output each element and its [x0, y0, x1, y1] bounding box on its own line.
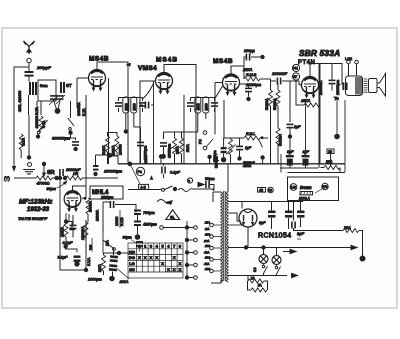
- tube MHL4: [64, 191, 81, 213]
- band switch contacts left: [37, 101, 48, 131]
- 1uF cap mid: [236, 146, 243, 151]
- svg-text:200µµF: 200µµF: [36, 65, 51, 70]
- svg-text:500ΚΛ: 500ΚΛ: [102, 145, 106, 155]
- cap on tube2 cathode left: [145, 102, 150, 109]
- svg-text:4000: 4000: [196, 103, 200, 110]
- junction dot: [27, 155, 31, 159]
- switch under osc: [103, 232, 113, 253]
- 8uF script cap lower: [291, 222, 296, 229]
- svg-text:2/Λ: 2/Λ: [204, 227, 210, 231]
- grid stopper cluster under tube3: [221, 147, 227, 153]
- dot under padder: [73, 147, 77, 151]
- svg-text:7Λ: 7Λ: [258, 284, 263, 288]
- field resistor hatched: [300, 192, 313, 195]
- tube3 grid wire: [215, 83, 223, 135]
- MHL4 label box: [90, 186, 123, 199]
- IFT1 bottom leads: [126, 113, 134, 131]
- svg-text:50µm: 50µm: [205, 177, 215, 181]
- svg-text:R.V.B: R.V.B: [120, 217, 124, 226]
- svg-text:130: 130: [205, 233, 210, 237]
- earth arrow: [12, 166, 16, 172]
- wire from box down: [293, 201, 295, 221]
- cap under IFT1: [137, 142, 144, 147]
- svg-text:PH: PH: [293, 67, 298, 71]
- svg-text:60µm: 60µm: [123, 236, 132, 240]
- svg-text:S.V.A: S.V.A: [87, 257, 91, 266]
- svg-text:6.3: 6.3: [253, 267, 257, 272]
- coil box 5cm: [38, 80, 56, 101]
- svg-text:0.1µF: 0.1µF: [170, 171, 180, 175]
- capacitor antenna series: [25, 71, 34, 77]
- svg-text:5000µm: 5000µm: [215, 156, 219, 168]
- resistor 100000 R.TA vertical: [39, 116, 43, 132]
- svg-text:300000µm: 300000µm: [52, 137, 70, 141]
- resistor 50000 vertical c: [276, 128, 280, 144]
- lamp switches: [264, 264, 281, 275]
- wire to earth arrow left: [14, 67, 29, 170]
- svg-text:TAUTE 500/2PF: TAUTE 500/2PF: [18, 216, 48, 221]
- 270 circle: [322, 183, 328, 189]
- 45 box: [258, 188, 266, 193]
- svg-text:MS4B: MS4B: [213, 58, 233, 65]
- wire antenna to cap: [28, 63, 30, 71]
- svg-text:100000µm: 100000µm: [104, 170, 122, 174]
- svg-text:0.1µF: 0.1µF: [58, 256, 68, 260]
- line to 4-5 box: [130, 164, 140, 184]
- svg-text:MS4B: MS4B: [156, 57, 178, 64]
- svg-text:1000: 1000: [132, 103, 136, 110]
- svg-text:DG: DG: [129, 255, 135, 260]
- svg-text:30: 30: [328, 150, 332, 154]
- svg-text:LG: LG: [129, 261, 135, 266]
- 4-5 box: [139, 184, 149, 189]
- svg-text:140: 140: [291, 186, 297, 190]
- svg-text:X: X: [167, 267, 170, 272]
- cap under tube3 anode: [240, 83, 249, 85]
- tube MS4B no.2: [156, 73, 173, 95]
- main ground bus left: [14, 177, 36, 179]
- switch on lower wire: [128, 189, 161, 191]
- svg-text:X: X: [150, 255, 153, 260]
- svg-text:200µµ: 200µµ: [243, 49, 256, 53]
- svg-text:10000Λ: 10000Λ: [96, 209, 100, 221]
- band switch contacts right: [68, 101, 74, 126]
- 0.1uF cap on bus: [161, 167, 166, 174]
- top box wires: [281, 154, 345, 173]
- svg-text:W.KA: W.KA: [22, 137, 26, 146]
- grid resistors tube2: [106, 136, 110, 152]
- tube2 grid wire left: [140, 81, 156, 164]
- svg-text:11Λ: 11Λ: [205, 221, 210, 225]
- cap 0.1 left: [93, 165, 99, 171]
- svg-text:1000µm: 1000µm: [88, 278, 102, 282]
- tube1 grid wire: [77, 78, 89, 108]
- svg-text:1000µm: 1000µm: [101, 196, 113, 200]
- cap 10000 DR: [59, 169, 64, 176]
- tube MS4B no.1: [89, 70, 106, 92]
- speaker: [369, 74, 386, 97]
- svg-text:MS4B: MS4B: [89, 56, 109, 63]
- svg-text:E.M.B: E.M.B: [246, 73, 257, 77]
- svg-text:50000Λ: 50000Λ: [279, 134, 283, 146]
- svg-text:190: 190: [205, 256, 210, 260]
- svg-text:20000Λ: 20000Λ: [89, 200, 93, 212]
- IF transformer 2: [191, 98, 215, 113]
- grid feed wire PT4N: [289, 82, 291, 123]
- wire tube1 top to VMS4 line: [97, 62, 128, 92]
- rectifier tube: [239, 209, 257, 227]
- svg-text:700µm: 700µm: [143, 211, 155, 215]
- svg-text:5cm: 5cm: [40, 83, 48, 88]
- 7ohm resistors loop: [248, 274, 277, 291]
- AVC line down: [127, 92, 129, 164]
- svg-text:1000: 1000: [204, 103, 208, 110]
- svg-text:KG: KG: [129, 249, 135, 254]
- pot wiper arrow: [42, 162, 46, 166]
- svg-text:10000: 10000: [115, 216, 119, 226]
- tube MS4B no.3: [223, 74, 240, 96]
- ST component: [61, 82, 64, 93]
- svg-text:8µF: 8µF: [287, 150, 294, 154]
- svg-text:2000.Λ: 2000.Λ: [298, 197, 310, 201]
- junction dot osc: [117, 251, 121, 255]
- svg-text:VMS4: VMS4: [138, 65, 157, 72]
- svg-text:MF:123kHz: MF:123kHz: [19, 199, 53, 206]
- PU pickup terminals: [203, 131, 207, 135]
- tuning cap 1: [50, 95, 57, 100]
- anode arrow into tube: [82, 197, 87, 201]
- Gl triangle: [166, 210, 180, 220]
- big cap drop wire: [344, 100, 346, 172]
- 140 circle: [290, 184, 297, 191]
- svg-text:R.TA: R.TA: [82, 108, 86, 116]
- svg-text:100000Λ: 100000Λ: [81, 226, 85, 240]
- svg-text:X: X: [161, 261, 164, 266]
- filter ground line: [280, 167, 318, 169]
- 25000 resistor horizontal mid: [223, 100, 225, 138]
- 30 box: [327, 149, 334, 154]
- padding caps right: [134, 210, 141, 216]
- osc anode resistor: [102, 255, 106, 271]
- svg-text:PU: PU: [199, 139, 203, 144]
- svg-text:X: X: [173, 255, 176, 260]
- svg-text:5ΚΛ: 5ΚΛ: [326, 160, 333, 164]
- wire tube2 top: [164, 65, 196, 165]
- svg-text:Bonn: Bonn: [300, 185, 312, 190]
- svg-text:100000: 100000: [119, 144, 123, 155]
- tuning cap 2: [57, 95, 64, 100]
- cap top of osc: [110, 201, 115, 208]
- dial lamps: [259, 255, 268, 264]
- tube PT4N: [302, 77, 319, 99]
- svg-text:8µF: 8µF: [297, 231, 305, 236]
- AT circle: [292, 73, 299, 80]
- 1uF cap right top: [289, 112, 291, 122]
- svg-text:(T): (T): [4, 176, 10, 181]
- output transformer: [346, 76, 368, 96]
- svg-text:40Λ: 40Λ: [204, 251, 210, 255]
- terminals right of table: [194, 226, 198, 230]
- svg-text:X: X: [138, 255, 141, 260]
- mains terminals: [210, 223, 214, 227]
- top tap wire with terminal: [160, 226, 164, 230]
- svg-text:10000µm: 10000µm: [168, 144, 172, 158]
- cap in shield: [70, 225, 77, 230]
- svg-text:SU: SU: [129, 267, 135, 272]
- svg-text:50000Λ: 50000Λ: [265, 98, 269, 110]
- svg-text:50ΚΛ: 50ΚΛ: [186, 143, 190, 152]
- svg-text:20000µm: 20000µm: [336, 80, 340, 95]
- resistor 80ohm on bus: [66, 176, 82, 180]
- svg-text:SBR 533A: SBR 533A: [299, 48, 340, 58]
- wire tube3 top: [231, 66, 244, 74]
- detector load cluster: [164, 132, 199, 164]
- svg-text:10ΚΛ: 10ΚΛ: [98, 263, 102, 272]
- detector stage caps under tube2/3: [96, 155, 109, 165]
- PH circle: [292, 64, 299, 71]
- svg-text:30: 30: [268, 189, 272, 193]
- svg-text:200Λ: 200Λ: [119, 280, 129, 284]
- big cap right: [342, 83, 347, 91]
- tone cap: [329, 80, 336, 85]
- svg-text:100000Λ: 100000Λ: [77, 102, 81, 116]
- svg-text:AT: AT: [293, 75, 297, 79]
- wire tube top to box: [73, 186, 87, 199]
- svg-text:80µm: 80µm: [47, 187, 56, 191]
- svg-text:100000F: 100000F: [272, 72, 288, 76]
- svg-text:100ΚΛ: 100ΚΛ: [61, 226, 65, 237]
- wire left column to ground: [28, 115, 30, 156]
- 30 circle small: [268, 187, 274, 193]
- svg-text:10000: 10000: [144, 154, 148, 164]
- resistor 50000 vertical b: [276, 90, 280, 106]
- wire cap down: [28, 77, 30, 82]
- s circle: [187, 178, 192, 183]
- svg-text:GL: GL: [170, 215, 175, 219]
- svg-text:270: 270: [322, 185, 328, 189]
- LS terminals: [347, 60, 351, 64]
- switch table: [128, 243, 183, 278]
- svg-text:1µF: 1µF: [303, 150, 310, 154]
- svg-text:X: X: [155, 255, 158, 260]
- field coil box: [288, 177, 339, 201]
- switch lever right: [261, 136, 264, 139]
- resistor 42000 on bus: [36, 176, 52, 180]
- svg-text:48SL 410000: 48SL 410000: [18, 91, 22, 112]
- svg-text:SR: SR: [47, 170, 55, 176]
- svg-text:10ΚΛ: 10ΚΛ: [176, 145, 180, 154]
- short arrow branch: [283, 251, 291, 253]
- svg-text:4150µm: 4150µm: [143, 223, 157, 227]
- svg-text:X: X: [173, 267, 176, 272]
- svg-text:ST: ST: [66, 83, 72, 88]
- caps left bottom: [109, 255, 118, 271]
- heater wire and arrow: [228, 275, 287, 277]
- svg-text:50000Λ: 50000Λ: [273, 98, 277, 110]
- svg-text:47000Ω: 47000Ω: [37, 182, 50, 186]
- tube1 cathode wires: [86, 78, 109, 186]
- svg-text:To: To: [334, 96, 339, 101]
- trim arrows: [49, 95, 65, 105]
- svg-text:X: X: [179, 261, 182, 266]
- padder cap: [72, 141, 79, 146]
- terminal feed line: [187, 221, 194, 278]
- input coil stack: [30, 82, 36, 95]
- svg-text:45: 45: [259, 188, 263, 192]
- svg-text:8µF: 8µF: [259, 221, 266, 225]
- HT wire with arrow: [228, 247, 354, 249]
- wires under coils: [29, 95, 42, 115]
- HT rail to smoothing caps: [242, 201, 303, 203]
- 319 vertical wire: [318, 63, 320, 168]
- IF transformer 1: [119, 98, 143, 113]
- right resistor 100000: [84, 222, 88, 238]
- svg-text:0.1µF: 0.1µF: [63, 241, 73, 245]
- svg-text:220: 220: [204, 267, 210, 271]
- svg-text:100ΚΛ: 100ΚΛ: [112, 145, 116, 155]
- cathode drop wire: [305, 100, 307, 155]
- grid wire PT4N: [300, 84, 302, 86]
- svg-text:27Λ: 27Λ: [106, 239, 110, 246]
- svg-text:150: 150: [205, 244, 210, 248]
- svg-text:1932-33: 1932-33: [27, 207, 50, 213]
- antenna A: [24, 41, 35, 53]
- svg-text:Pu: Pu: [138, 170, 142, 174]
- svg-text:X: X: [179, 267, 182, 272]
- cathode network below tube: [66, 214, 73, 228]
- resistor W.KA vertical with zigzag: [19, 134, 23, 150]
- resistor in shield: [64, 221, 68, 237]
- wire IFT1 secondary to grid tube2: [119, 84, 154, 100]
- wires under IFT2: [184, 95, 206, 164]
- volume pot resistor: [229, 139, 233, 155]
- svg-text:4150Λ: 4150Λ: [243, 164, 251, 168]
- ground symbol: [23, 170, 35, 174]
- svg-text:1µF: 1µF: [245, 146, 252, 150]
- coupling ball: [27, 58, 31, 62]
- svg-text:RCN1054: RCN1054: [258, 233, 292, 240]
- resistor 50000 vertical a: [269, 90, 273, 106]
- shield box: [60, 213, 86, 270]
- svg-text:45Λ: 45Λ: [204, 262, 210, 266]
- svg-text:X: X: [144, 255, 147, 260]
- plate resistor right: [86, 198, 90, 214]
- wire PT4N top to output: [310, 64, 342, 85]
- svg-text:22Λ: 22Λ: [203, 239, 210, 243]
- main bus: [118, 163, 345, 165]
- wave symbol: [157, 200, 172, 204]
- Pu circle: [136, 167, 144, 175]
- osc box: [103, 202, 110, 232]
- power transformer primary: [221, 191, 228, 282]
- svg-text:1µF: 1µF: [294, 125, 301, 129]
- coupling circle: [28, 163, 32, 167]
